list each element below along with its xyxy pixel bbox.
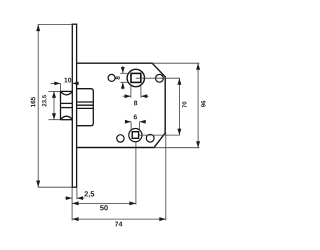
screw hole top-right xyxy=(156,74,164,82)
dimension 23,5 xyxy=(49,91,61,119)
screw hole top-left xyxy=(108,74,115,81)
latch bolt xyxy=(61,91,73,119)
screw hole bottom-right xyxy=(146,134,154,142)
lock case outline xyxy=(77,63,166,147)
screw hole bottom-left xyxy=(117,135,124,142)
spindle follower circle xyxy=(127,69,144,86)
dimension 70 xyxy=(178,78,180,135)
dimension 74 xyxy=(72,133,166,221)
dimension 6 xyxy=(125,122,146,131)
horizontal dimension 8 below spindle xyxy=(123,86,149,98)
centerline row2 xyxy=(139,134,180,136)
dimension 2,5 xyxy=(65,188,85,221)
bottom follower circle xyxy=(129,129,142,142)
faceplate xyxy=(72,24,76,187)
latch housing on case xyxy=(77,89,94,126)
centerline row1 xyxy=(136,77,180,79)
dimension 10 xyxy=(51,83,79,91)
dimension 50 xyxy=(72,142,136,205)
spindle square 8mm xyxy=(131,73,141,82)
dimension 96 xyxy=(152,63,199,148)
vertical dimension 8 at spindle xyxy=(120,66,127,90)
bottom square 6mm xyxy=(132,132,138,139)
dimension 165 xyxy=(38,24,73,187)
